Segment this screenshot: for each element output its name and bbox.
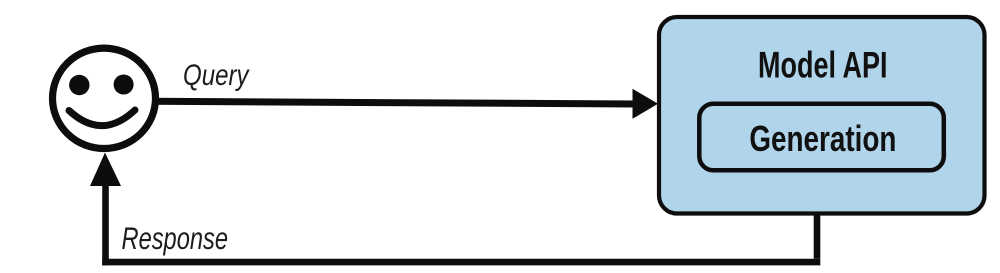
wire: query line from user to Model API	[152, 101, 640, 104]
wire: response bottom horizontal segment	[102, 259, 820, 266]
wire: response bottom-right vertical segment from Model API box	[814, 213, 821, 259]
svg-text:Response: Response	[122, 220, 229, 256]
box: Model API	[659, 17, 985, 214]
svg-text:Query: Query	[183, 59, 250, 92]
user smiley mouth	[69, 110, 135, 126]
svg-text:Model API: Model API	[758, 43, 888, 85]
arrowhead: response arrow pointing up at user	[90, 153, 121, 187]
svg-text:Generation: Generation	[749, 118, 896, 159]
user smiley face circle	[53, 48, 156, 148]
user smiley right eye	[114, 75, 134, 95]
wire: response left vertical segment up to user	[102, 184, 109, 265]
arrowhead: query arrow pointing into Model API box	[633, 89, 659, 119]
box: Generation	[699, 104, 944, 171]
user smiley left eye	[69, 75, 89, 95]
